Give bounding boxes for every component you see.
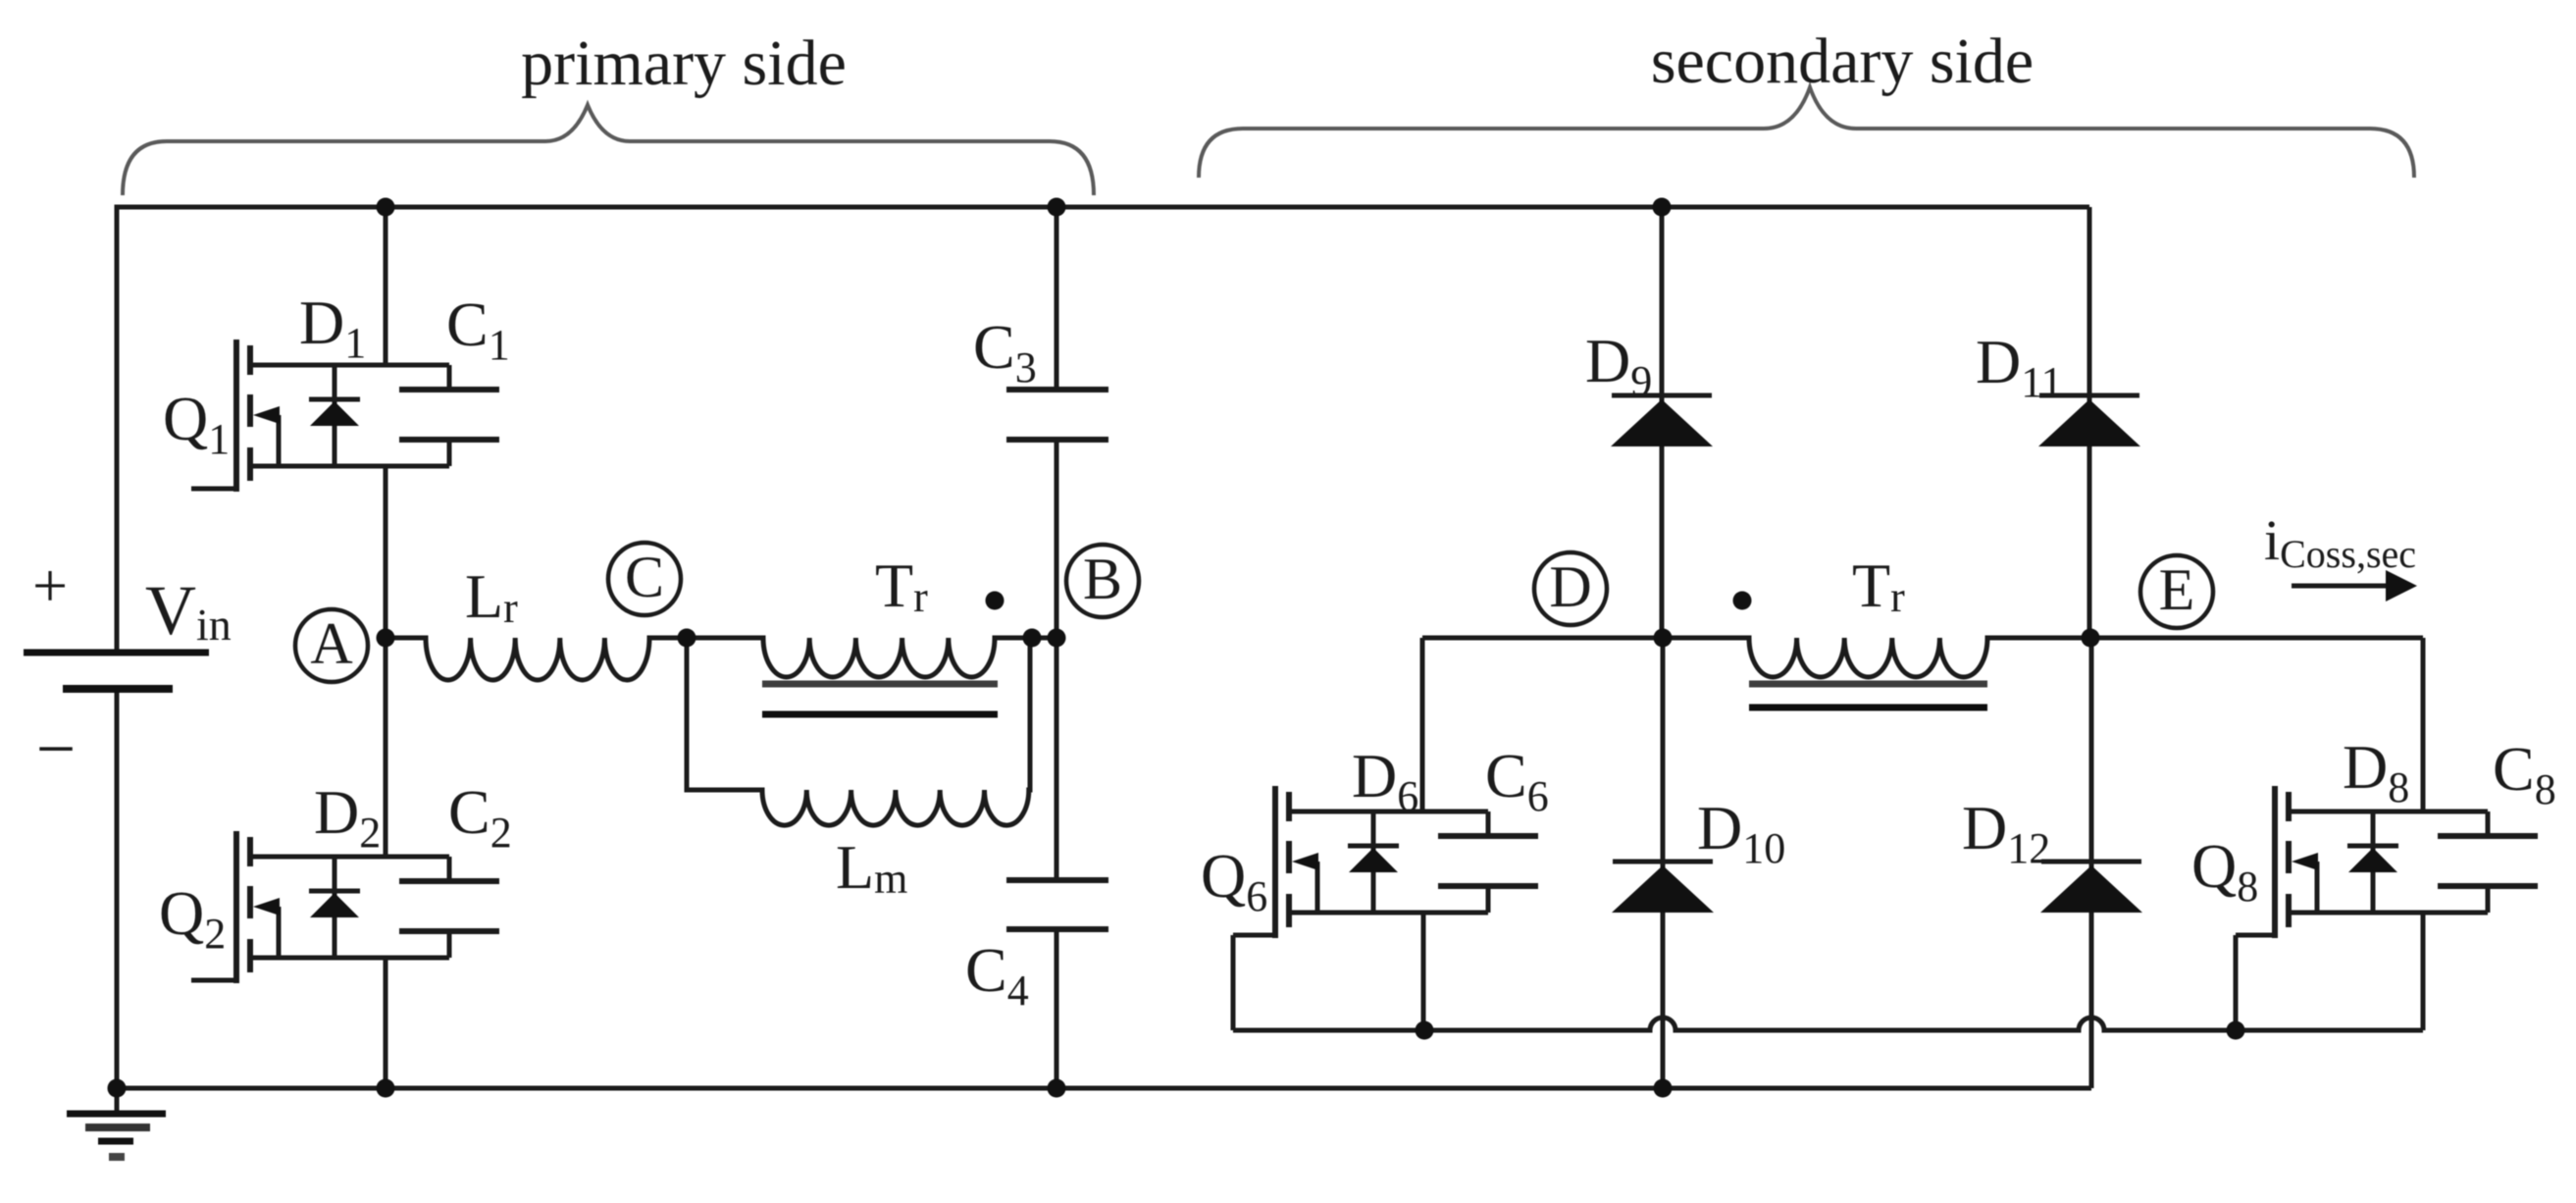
svg-text:C: C (625, 545, 664, 609)
svg-text:B: B (1083, 547, 1122, 611)
svg-text:A: A (310, 611, 352, 676)
svg-text:+: + (32, 550, 68, 620)
svg-text:−: − (36, 709, 77, 788)
svg-text:D: D (1549, 554, 1591, 619)
svg-text:E: E (2159, 557, 2195, 622)
svg-text:secondary side: secondary side (1651, 26, 2034, 97)
svg-text:primary side: primary side (521, 27, 847, 99)
